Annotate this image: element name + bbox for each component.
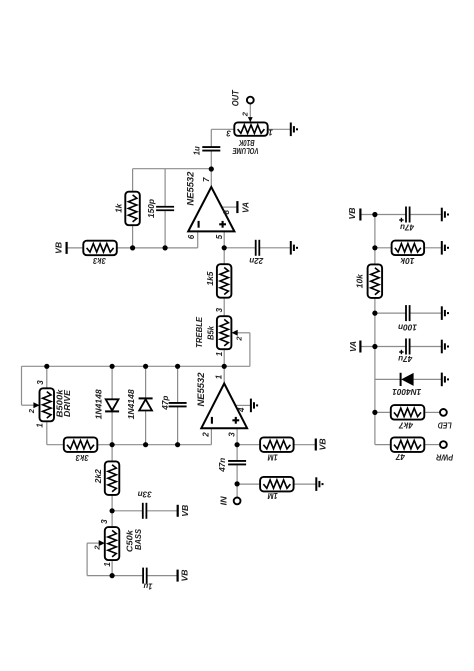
svg-text:1u: 1u bbox=[192, 146, 202, 156]
svg-text:47n: 47n bbox=[217, 458, 227, 473]
svg-text:3: 3 bbox=[226, 129, 231, 138]
svg-text:47u: 47u bbox=[399, 222, 415, 232]
svg-text:4k7: 4k7 bbox=[398, 420, 414, 430]
svg-text:DRIVE: DRIVE bbox=[62, 390, 72, 417]
svg-text:3: 3 bbox=[100, 519, 109, 524]
svg-text:2: 2 bbox=[27, 408, 36, 414]
svg-text:33n: 33n bbox=[138, 490, 152, 500]
svg-text:3: 3 bbox=[228, 432, 237, 437]
svg-text:2: 2 bbox=[240, 111, 249, 117]
svg-text:22n: 22n bbox=[249, 256, 264, 266]
svg-text:VA: VA bbox=[348, 341, 358, 352]
svg-text:2: 2 bbox=[235, 336, 244, 342]
svg-text:PWR: PWR bbox=[435, 453, 453, 463]
svg-text:1N4148: 1N4148 bbox=[93, 389, 103, 419]
svg-text:3: 3 bbox=[215, 307, 224, 312]
svg-text:TREBLE: TREBLE bbox=[194, 317, 204, 348]
svg-text:47: 47 bbox=[395, 452, 406, 462]
svg-text:NE5532: NE5532 bbox=[185, 171, 196, 206]
svg-text:LED: LED bbox=[438, 421, 452, 431]
svg-text:3: 3 bbox=[36, 380, 45, 385]
svg-text:IN: IN bbox=[219, 495, 229, 505]
svg-text:47u: 47u bbox=[397, 354, 413, 364]
svg-text:VOLUME: VOLUME bbox=[232, 146, 258, 155]
svg-text:1: 1 bbox=[215, 374, 224, 379]
svg-text:OUT: OUT bbox=[231, 89, 241, 106]
svg-text:B5k: B5k bbox=[206, 325, 216, 340]
svg-text:1: 1 bbox=[103, 562, 112, 567]
svg-text:VA: VA bbox=[240, 202, 250, 213]
svg-text:4: 4 bbox=[237, 407, 246, 413]
svg-text:2: 2 bbox=[93, 545, 102, 551]
svg-text:5: 5 bbox=[215, 234, 224, 239]
svg-text:8: 8 bbox=[222, 210, 231, 215]
svg-text:VB: VB bbox=[53, 242, 63, 254]
svg-text:1N4001: 1N4001 bbox=[392, 387, 421, 397]
svg-text:47p: 47p bbox=[160, 396, 170, 411]
svg-text:VB: VB bbox=[347, 208, 357, 220]
svg-text:6: 6 bbox=[187, 234, 196, 239]
svg-text:VB: VB bbox=[180, 570, 190, 582]
svg-text:100n: 100n bbox=[398, 323, 417, 333]
svg-text:NE5532: NE5532 bbox=[196, 372, 207, 407]
svg-text:1N4148: 1N4148 bbox=[126, 389, 136, 419]
svg-text:3k3: 3k3 bbox=[75, 453, 88, 463]
svg-text:7: 7 bbox=[202, 177, 211, 182]
svg-text:1M: 1M bbox=[267, 491, 278, 501]
svg-text:10k: 10k bbox=[399, 256, 414, 266]
svg-text:3k3: 3k3 bbox=[93, 256, 106, 266]
svg-text:VB: VB bbox=[180, 505, 190, 517]
svg-text:B10K: B10K bbox=[238, 138, 255, 147]
svg-text:2: 2 bbox=[202, 432, 211, 438]
svg-text:1: 1 bbox=[35, 423, 44, 428]
svg-text:1: 1 bbox=[215, 351, 224, 356]
svg-text:VB: VB bbox=[317, 438, 327, 450]
svg-text:1u: 1u bbox=[143, 582, 153, 592]
svg-text:BASS: BASS bbox=[133, 529, 143, 550]
svg-text:10k: 10k bbox=[355, 273, 365, 288]
svg-text:1k5: 1k5 bbox=[205, 271, 215, 285]
svg-text:150p: 150p bbox=[146, 199, 156, 218]
svg-text:2k2: 2k2 bbox=[93, 469, 103, 484]
svg-text:1k: 1k bbox=[114, 203, 124, 213]
svg-text:1M: 1M bbox=[267, 452, 278, 462]
svg-text:1: 1 bbox=[268, 128, 273, 137]
